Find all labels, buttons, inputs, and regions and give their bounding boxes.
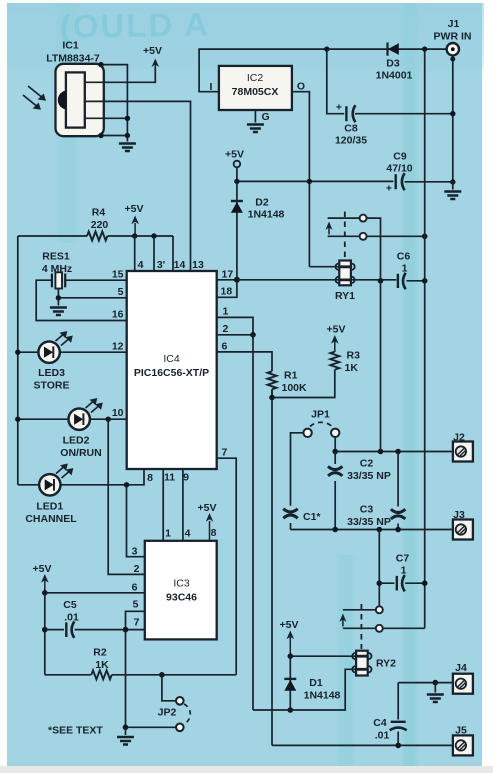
relay RY2 armature arrow (339, 614, 346, 627)
ground (JP2) (117, 737, 134, 745)
resistor R4 220 (18, 207, 173, 241)
svg-text:3: 3 (132, 546, 138, 558)
svg-text:G: G (262, 111, 270, 123)
svg-text:CHANNEL: CHANNEL (25, 513, 77, 525)
+5V arrow (IC3 pin8) (198, 502, 217, 541)
svg-text:ON/RUN: ON/RUN (60, 447, 101, 459)
node J4 ground (433, 680, 439, 686)
svg-text:16: 16 (112, 309, 124, 321)
node IC1 lead3 junction (125, 116, 130, 121)
wire raw relay feed vertical (424, 49, 426, 628)
LED3 STORE (18, 331, 73, 392)
wire J4 line (398, 682, 453, 684)
svg-text:IC4: IC4 (163, 353, 180, 365)
relay RY1 contact bottom (328, 233, 425, 240)
node C3 bottom (395, 527, 401, 533)
svg-text:17: 17 (222, 269, 234, 281)
wire JP1 left to C1 (291, 433, 304, 506)
svg-text:4: 4 (185, 528, 191, 540)
wire LED3 to pin 12 (60, 351, 127, 353)
svg-text:J3: J3 (453, 509, 465, 521)
resistor R3 1K (330, 337, 360, 374)
node LED2 / IC3 pin2 riser (106, 417, 111, 422)
svg-text:1N4001: 1N4001 (376, 70, 413, 82)
+5V arrow (R3) (327, 324, 346, 344)
diode D2 1N4148 (231, 181, 285, 279)
ground (IC2) (247, 125, 264, 133)
svg-text:+5V: +5V (125, 203, 144, 215)
wire pins 1-2 join (217, 317, 253, 334)
node C7 left (377, 580, 383, 586)
svg-text:IC1: IC1 (62, 40, 79, 52)
wire +5V to RY2 coil top (290, 655, 356, 657)
node IC1 bottom junction (98, 133, 103, 138)
svg-text:9: 9 (183, 472, 189, 484)
svg-text:LTM8834-7: LTM8834-7 (46, 53, 100, 65)
wire ground stem (J4) (434, 683, 436, 693)
capacitor C6 1 (397, 251, 411, 290)
connector J4 (453, 662, 473, 694)
node D1 bottom (288, 707, 294, 713)
wire IC3 pin5 jog (126, 611, 145, 629)
node C9 right end (450, 179, 455, 184)
node LED3 bus (15, 350, 20, 355)
svg-text:IC2: IC2 (247, 72, 264, 84)
node C2 riser top (378, 449, 384, 455)
wire IC4 pin11 to IC3 pin1 (162, 469, 164, 541)
node raw rail to relay feed (422, 46, 427, 51)
svg-text:7: 7 (134, 617, 140, 629)
svg-text:.01: .01 (64, 612, 79, 624)
svg-text:J4: J4 (455, 662, 467, 674)
wire IC2 output to +5V rail (292, 92, 310, 267)
svg-text:C4: C4 (373, 717, 387, 729)
node R4 rail pin4 (132, 233, 137, 238)
connector J1 PWR IN (434, 18, 472, 55)
svg-text:11: 11 (164, 472, 175, 484)
svg-text:PWR IN: PWR IN (434, 31, 472, 43)
regulator IC2 78M05CX (219, 66, 292, 110)
wire rail to pin 14 (172, 236, 174, 271)
relay RY2 contact bottom (343, 625, 425, 632)
wire ground stem (JP2) (125, 727, 127, 735)
svg-text:*SEE TEXT: *SEE TEXT (48, 725, 103, 737)
svg-text:18: 18 (221, 286, 233, 298)
node RY1 drive / C2 riser (378, 278, 384, 284)
svg-text:C1*: C1* (303, 511, 321, 523)
node D3/C8 junction (324, 46, 329, 51)
svg-text:C9: C9 (393, 151, 407, 163)
wire IC1 lead3 (85, 117, 128, 119)
memory IC3 93C46 (145, 541, 217, 640)
wire IC3 pin7 line (75, 629, 145, 631)
+5V arrow (IC1) (143, 45, 162, 68)
wire raw input rail y49 (327, 48, 447, 50)
wire J3 line down to RY2 contact (378, 530, 380, 607)
relay RY1 contact top (328, 215, 381, 278)
node C7 right / raw feed (422, 580, 428, 586)
IR input arrows (23, 86, 46, 110)
svg-text:R2: R2 (93, 647, 107, 659)
svg-text:+: + (386, 183, 392, 195)
node C6 right / raw feed (422, 278, 428, 284)
svg-text:JP2: JP2 (158, 707, 177, 719)
IR receiver module IC1 outline (56, 64, 104, 136)
svg-text:RES1: RES1 (42, 251, 70, 263)
node R2 line / JP2 (159, 672, 165, 678)
svg-text:1K: 1K (95, 659, 109, 671)
svg-text:(OULD A: (OULD A (59, 5, 210, 45)
connector J5 (453, 725, 473, 756)
wire pins5/7 down to ground line (125, 630, 127, 728)
ground (J1 rail) (444, 192, 461, 200)
svg-text:RY2: RY2 (376, 658, 396, 670)
svg-text:47/10: 47/10 (386, 163, 412, 175)
relay RY2 coil (352, 651, 396, 676)
node pins 1/2 (250, 332, 256, 338)
svg-text:D3: D3 (386, 58, 400, 70)
svg-text:33/35 NP: 33/35 NP (347, 470, 391, 482)
svg-text:220: 220 (91, 219, 109, 231)
svg-text:1K: 1K (345, 362, 359, 374)
wire pin 6 down (217, 352, 272, 371)
wire J1 down to ground node (450, 55, 455, 182)
wire pin 18 loop (217, 280, 237, 298)
node C2 bottom (332, 527, 338, 533)
wire IC1 lead1 to +5V (85, 68, 156, 83)
ground (IC1) (119, 144, 136, 152)
relay RY1 armature arrow (326, 222, 333, 235)
wire IC2 ground stub (254, 110, 256, 123)
node C4 bottom (395, 743, 401, 749)
capacitor C3 33/35 NP (347, 452, 405, 530)
capacitor C8 120/35 (335, 102, 453, 147)
svg-text:+5V: +5V (225, 149, 244, 161)
svg-text:3': 3' (157, 259, 165, 271)
capacitor C7 1 (379, 553, 424, 592)
wire rail to pin 3' (153, 236, 155, 271)
capacitor C1 (283, 509, 321, 530)
svg-text:4: 4 (138, 259, 144, 271)
svg-text:5: 5 (118, 286, 124, 298)
svg-text:C3: C3 (360, 504, 374, 516)
node +5V terminal junction (234, 179, 239, 184)
+5V arrow (RY2) (280, 619, 299, 656)
wire IC1 lead2 to IC4 pin13 (85, 101, 191, 271)
svg-text:+5V: +5V (143, 45, 162, 57)
node pins 17/18/D2 (234, 277, 240, 283)
svg-text:LED1: LED1 (36, 501, 63, 513)
svg-text:+: + (336, 102, 342, 114)
svg-text:100K: 100K (282, 382, 308, 394)
node resonator center tap (56, 295, 61, 300)
resistor R2 1K (45, 647, 236, 680)
connector J2 (453, 432, 473, 462)
diode D3 1N4001 (376, 43, 413, 82)
wire LED2 to pin 10 (90, 418, 127, 420)
svg-text:33/35 NP: 33/35 NP (347, 516, 391, 528)
svg-text:C7: C7 (396, 553, 410, 565)
relay RY1 coil (335, 261, 355, 303)
svg-text:C5: C5 (63, 599, 77, 611)
wire pin 17 (217, 279, 237, 281)
wire ground stem (RES1) (57, 298, 59, 306)
jumper JP1 (303, 409, 339, 437)
svg-text:R1: R1 (284, 370, 298, 382)
wire LED1 to pin 8 (61, 469, 145, 485)
svg-text:6: 6 (132, 582, 138, 594)
ground (RES1) (50, 308, 67, 316)
wire IC1 top corner to ground rail (101, 65, 127, 142)
svg-text:R3: R3 (347, 350, 361, 362)
svg-text:J5: J5 (455, 725, 467, 737)
node LED2 bus (15, 417, 20, 422)
wire pin 5 to resonator ground (58, 297, 126, 299)
ground (J4) (427, 695, 444, 703)
connector J3 (453, 509, 473, 540)
svg-text:1: 1 (401, 565, 407, 577)
wire IC3 pin6 to +5V column (45, 592, 145, 594)
svg-text:D2: D2 (255, 197, 269, 209)
wire RES1 left lead to pin 16 (36, 280, 127, 320)
svg-text:LED2: LED2 (63, 435, 90, 447)
svg-text:93C46: 93C46 (166, 592, 197, 604)
IC1 label (46, 40, 100, 65)
svg-text:8: 8 (147, 472, 153, 484)
svg-text:C2: C2 (360, 458, 374, 470)
svg-text:8: 8 (211, 527, 217, 539)
wire relay drive line y280.8 (237, 280, 425, 281)
svg-text:J2: J2 (453, 432, 465, 444)
svg-text:R4: R4 (92, 207, 106, 219)
relay RY2 contact top (343, 606, 383, 613)
svg-text:2: 2 (134, 563, 140, 575)
wire rail to pin 4 (134, 236, 136, 271)
wire +5V rail y181 (237, 180, 453, 182)
relay RY1 linkage dashes (344, 212, 346, 259)
+5V arrow (C5 column) (33, 563, 52, 593)
svg-text:JP1: JP1 (311, 409, 330, 421)
node LED1 / IC3 pin3 riser (124, 482, 129, 487)
node IC2 output junction (307, 179, 312, 184)
svg-text:PIC16C56-XT/P: PIC16C56-XT/P (134, 367, 209, 379)
node +5V / pin6 (42, 590, 48, 596)
LED2 ON/RUN (18, 398, 103, 459)
wire RY1 coil top to +5V (309, 266, 339, 268)
svg-text:+5V: +5V (33, 563, 52, 575)
wire RES1 right lead to pin 15 (65, 279, 127, 281)
wire left LED bus (17, 236, 19, 485)
capacitor C4 .01 (373, 683, 406, 746)
node R4 rail pin3 (151, 233, 156, 238)
svg-text:STORE: STORE (34, 380, 70, 392)
wire pins 1/2 down to D1 line (252, 335, 254, 710)
svg-text:2: 2 (223, 323, 229, 335)
svg-text:15: 15 (112, 269, 124, 281)
svg-text:LED3: LED3 (38, 367, 65, 379)
node C8 right end (450, 111, 455, 116)
wire R1 bottom down to J5 line (271, 398, 273, 746)
capacitor C2 33/35 NP (328, 452, 391, 530)
svg-text:1: 1 (402, 263, 408, 275)
node RY1 NO contact / raw feed (422, 234, 428, 240)
svg-text:+5V: +5V (327, 324, 346, 336)
svg-text:5: 5 (133, 599, 139, 611)
svg-text:O: O (297, 81, 305, 93)
capacitor C5 .01 (45, 599, 79, 638)
svg-text:1N4148: 1N4148 (248, 209, 285, 221)
svg-text:.01: .01 (375, 730, 390, 742)
jumper JP2 (126, 675, 191, 731)
op IC4 PIC16C56-XT/P (127, 271, 217, 469)
LED1 CHANNEL (18, 464, 77, 526)
node C3 top (395, 449, 401, 455)
node +5V / D1 / RY2 coil (288, 653, 294, 659)
wire R1 to R3 (272, 370, 335, 398)
svg-text:C8: C8 (344, 123, 358, 135)
node IC1 top corner (98, 62, 103, 67)
svg-text:10: 10 (112, 407, 124, 419)
wire IC3 pin2 riser (108, 419, 145, 574)
svg-text:120/35: 120/35 (335, 135, 367, 147)
svg-text:+5V: +5V (280, 619, 299, 631)
svg-text:D1: D1 (309, 677, 323, 689)
svg-text:RY1: RY1 (335, 290, 355, 302)
svg-text:6: 6 (222, 341, 228, 353)
svg-text:78M05CX: 78M05CX (232, 86, 279, 98)
wire RY1 drive down to J2 line (380, 278, 382, 452)
wire IC3 pin3 riser (127, 485, 145, 557)
svg-text:14: 14 (174, 259, 186, 271)
wire IC1 bottom corner (101, 135, 127, 137)
node C5 left (42, 627, 48, 633)
svg-text:J1: J1 (448, 18, 460, 30)
wire pins1/2 line to RY2 coil bottom (253, 669, 356, 710)
svg-text:+5V: +5V (198, 502, 217, 514)
wire ground stem (J1) (452, 182, 454, 190)
svg-text:12: 12 (112, 341, 124, 353)
node R1 bottom (269, 395, 275, 401)
svg-text:1: 1 (165, 528, 171, 540)
svg-text:7: 7 (222, 447, 228, 459)
wire JP1 right down (334, 437, 336, 452)
+5V terminal (top) (225, 149, 244, 182)
node IC3 pins 5/7 (123, 627, 129, 633)
wire J5 line (272, 744, 453, 746)
wire C8 branch (327, 49, 344, 114)
svg-text:13: 13 (192, 259, 204, 271)
resonator RES1 4MHz (42, 251, 72, 298)
svg-text:1N4148: 1N4148 (304, 690, 341, 702)
wire +5V column down (44, 593, 46, 675)
svg-text:C6: C6 (397, 251, 411, 263)
node C7 riser top (377, 527, 383, 533)
wire J2 line (335, 451, 453, 453)
+5V arrow (IC4 supply) (125, 203, 144, 236)
svg-text:IC3: IC3 (173, 578, 190, 590)
node JP1/C2 top (332, 449, 338, 455)
diode D1 1N4148 (284, 656, 340, 710)
wire pin 7 down (217, 458, 237, 675)
wire IC2 input from top rail (199, 49, 327, 92)
wire J3 line (291, 529, 453, 531)
node JP2 ground (123, 725, 129, 731)
resistor R1 100K (268, 370, 308, 398)
capacitor C9 47/10 (386, 151, 413, 195)
wire IC4 pin9 to IC3 pin4 (182, 469, 184, 541)
svg-text:1: 1 (223, 306, 229, 318)
relay RY2 linkage dashes (360, 604, 362, 649)
